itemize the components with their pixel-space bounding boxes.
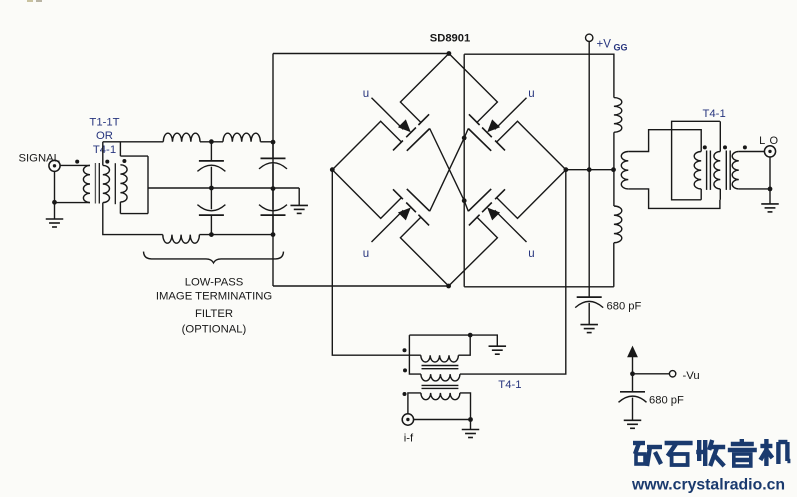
transistor Q3 gate arrow — [398, 208, 411, 221]
wire winding C right to ground — [460, 393, 471, 430]
svg-text:T1-1T: T1-1T — [89, 117, 119, 129]
wire quad left corner down to winding A — [332, 170, 421, 356]
transformer T3 winding A — [421, 355, 459, 362]
node filter mid 2 — [271, 186, 276, 191]
svg-text:u: u — [363, 248, 369, 260]
wire secondary1 top to filter top branch — [102, 142, 104, 166]
node filter top mid — [209, 139, 214, 144]
transistor Q4 source lead — [497, 170, 566, 219]
transistor Q2 drain lead — [449, 54, 498, 123]
wire right corner to VGG to choke tap — [566, 169, 614, 171]
node IF top line — [468, 333, 473, 338]
transformer T1 secondary 1 winding — [103, 165, 110, 202]
wire gate bus vertical — [463, 54, 465, 287]
svg-text:680 pF: 680 pF — [649, 395, 684, 407]
transistor Q3 gate arrow lead — [372, 210, 404, 242]
svg-text:www.crystalradio.cn: www.crystalradio.cn — [631, 477, 785, 494]
transformer T1 primary winding — [83, 165, 90, 202]
svg-text:T4-1: T4-1 — [93, 144, 116, 156]
wire T1 primary bottom — [55, 202, 91, 204]
wire LO shell down — [769, 157, 771, 204]
wire gate cross B (node G1 to Q3 gate) — [430, 138, 465, 211]
wire W1 top stub to W2 top — [628, 130, 701, 152]
svg-text:+V: +V — [597, 39, 612, 51]
inductor RF choke upper — [614, 98, 622, 133]
wire W4 bottom — [739, 188, 770, 190]
transistor Q1 source lead — [332, 121, 401, 169]
inductor RF choke lower — [614, 206, 622, 243]
transformer T1 secondary 2 winding — [120, 165, 127, 202]
svg-text:OR: OR — [96, 130, 113, 142]
node signal ground junction — [52, 200, 57, 205]
wire filter top branch — [103, 141, 273, 143]
svg-text:T4-1: T4-1 — [498, 379, 521, 391]
transistor Q1 channel — [393, 114, 429, 150]
transformer T2 winding W1 — [621, 152, 628, 189]
wire -Vu to terminal — [633, 373, 670, 375]
transformer T2 winding W4 — [732, 152, 739, 189]
node left rail bottom branch — [271, 232, 276, 237]
wire SIGNAL shell down — [54, 171, 56, 202]
node quad right corner — [564, 167, 569, 172]
svg-text:u: u — [528, 248, 534, 260]
shield box around W2 — [672, 121, 720, 200]
transistor Q1 drain lead — [400, 54, 449, 123]
wire choke bottom drop — [613, 243, 615, 287]
node G1 — [462, 136, 467, 141]
svg-text:u: u — [363, 88, 369, 100]
capacitor C3 — [259, 142, 287, 189]
transistor Q4 drain lead — [449, 217, 498, 286]
node G2 — [462, 198, 467, 203]
svg-text:SD8901: SD8901 — [430, 33, 470, 45]
wire winding A right to top line — [458, 335, 470, 355]
wire winding B right to quad right corner — [460, 170, 566, 374]
capacitor C6 680pF — [619, 392, 647, 421]
svg-text:FILTER: FILTER — [195, 308, 233, 320]
node left rail top branch — [271, 140, 276, 145]
terminal -Vu — [669, 371, 675, 377]
wire gate stub Q4 — [464, 201, 468, 212]
watermark logo — [633, 439, 790, 466]
wire bottom rail right — [464, 286, 614, 288]
phase dot W2 — [703, 145, 707, 149]
phase dot W4 — [743, 145, 747, 149]
wire bottom rail left — [273, 285, 449, 287]
transistor Q1 gate line — [407, 129, 430, 151]
wire gate stub Q2 — [464, 129, 468, 138]
transistor Q2 source lead — [497, 121, 566, 169]
transformer T2 winding W3 — [714, 152, 720, 189]
svg-text:IMAGE TERMINATING: IMAGE TERMINATING — [156, 290, 272, 302]
transistor Q2 gate arrow — [487, 119, 500, 132]
terminal +VGG — [586, 34, 593, 41]
wire VGG vertical — [588, 42, 590, 298]
transistor Q4 gate arrow — [487, 208, 500, 221]
capacitor C5 680pF — [575, 297, 603, 325]
transformer T3 core A-B — [422, 366, 459, 369]
capacitor C4 — [259, 189, 287, 235]
ground i-f — [462, 430, 480, 438]
transformer T1 separator line — [114, 163, 116, 204]
stray figure label fragment — [27, 0, 42, 2]
wire -Vu stem — [632, 357, 634, 392]
svg-text:T4-1: T4-1 — [703, 108, 726, 120]
svg-text:LOW-PASS: LOW-PASS — [185, 276, 244, 288]
transformer T3 winding C — [421, 393, 460, 400]
phase dot winding A — [403, 348, 407, 352]
wire top rail right — [464, 54, 614, 97]
transformer T2 core — [707, 151, 711, 190]
node quad top corner — [447, 51, 452, 56]
node LO ground junction — [768, 187, 773, 192]
wire W3 spine extensions — [719, 121, 721, 200]
transistor Q4 channel — [469, 189, 505, 225]
svg-text:GG: GG — [614, 43, 628, 53]
connector J1 SIGNAL — [49, 160, 60, 171]
wire W2 spine bottom — [700, 189, 702, 200]
transistor Q3 gate line — [407, 189, 430, 211]
inductor L2 — [223, 133, 260, 142]
transistor Q1 gate arrow lead — [372, 98, 404, 130]
label +VGG — [597, 39, 628, 53]
shield box around T1 secondary 2 — [120, 156, 148, 214]
wire top line corner down to winding B — [409, 335, 421, 374]
wire filter bottom branch — [163, 234, 273, 236]
connector J3 i-f — [402, 414, 413, 425]
transistor Q3 channel — [393, 189, 429, 225]
transformer T1 core — [95, 163, 99, 204]
ground signal — [46, 219, 64, 227]
transformer T3 winding B — [421, 374, 460, 381]
wire filter mid line — [148, 187, 299, 189]
svg-text:u: u — [528, 88, 534, 100]
svg-text:SIGNAL: SIGNAL — [19, 153, 60, 165]
wire W4 top to LO — [739, 151, 765, 153]
phase dot T1 secondary 1 — [105, 160, 109, 164]
node choke tap — [611, 167, 616, 172]
capacitor C2 — [197, 188, 225, 235]
phase dot T1 secondary 2 — [122, 159, 126, 163]
transistor Q2 gate line — [468, 129, 491, 151]
inductor L3 — [163, 235, 200, 244]
node filter bottom mid — [209, 232, 214, 237]
arrow -Vu supply — [627, 346, 638, 358]
filter caption — [156, 276, 272, 335]
phase dot winding C — [403, 392, 407, 396]
svg-text:680 pF: 680 pF — [607, 301, 642, 313]
wire top branch drop to shield box — [119, 142, 121, 156]
wire winding C left to i-f connector — [408, 393, 421, 414]
phase dot T1 primary — [75, 160, 79, 164]
wire i-f shell to ground node — [414, 419, 471, 421]
node VGG junction — [587, 167, 592, 172]
ground C6 — [624, 420, 642, 428]
transformer T2 winding W2 — [694, 152, 701, 189]
transistor Q2 channel — [469, 114, 505, 150]
capacitor C1 — [197, 142, 225, 188]
wire W1 bottom stub to W3 bottom — [628, 189, 720, 209]
transistor Q1 gate arrow — [398, 119, 411, 132]
transistor Q2 gate arrow lead — [495, 98, 527, 130]
connector J2 LO — [764, 146, 775, 157]
ground C5 — [580, 325, 598, 333]
transistor Q4 gate arrow lead — [495, 210, 527, 242]
node quad bottom corner — [446, 284, 451, 289]
inductor L1 — [163, 133, 200, 142]
svg-text:i-f: i-f — [404, 432, 414, 444]
node quad left corner — [330, 167, 335, 172]
wire mid to ground — [298, 188, 300, 205]
wire IF top line — [409, 335, 497, 346]
transistor Q3 drain lead — [400, 217, 448, 286]
svg-text:-Vu: -Vu — [683, 370, 700, 382]
ground filter mid — [290, 205, 308, 213]
wire gate cross A (Q1 gate to node G2) — [430, 129, 465, 201]
transformer T1 labels T1-1T OR T4-1 — [89, 117, 119, 157]
wire choke middle — [613, 132, 615, 206]
wire secondary1 bottom to filter bottom branch — [103, 203, 163, 235]
transformer T3 core B-C — [422, 385, 459, 388]
wire to signal ground — [54, 202, 56, 219]
wire top rail left — [273, 53, 449, 55]
node filter mid 1 — [209, 186, 214, 191]
phase dot W3 — [723, 145, 727, 149]
transistor Q4 gate line — [468, 189, 491, 211]
phase dot winding B — [403, 368, 407, 372]
transformer T2 core 2 — [726, 151, 730, 190]
brace under filter — [144, 252, 284, 263]
ground IF top — [489, 346, 507, 354]
ground LO — [761, 204, 779, 212]
node i-f ground — [468, 417, 473, 422]
wire SIGNAL to T1 primary top — [60, 164, 90, 166]
wire left rail vertical — [272, 54, 274, 287]
node -Vu — [630, 371, 635, 376]
transistor Q3 source lead — [332, 170, 401, 219]
svg-text:(OPTIONAL): (OPTIONAL) — [182, 324, 247, 336]
